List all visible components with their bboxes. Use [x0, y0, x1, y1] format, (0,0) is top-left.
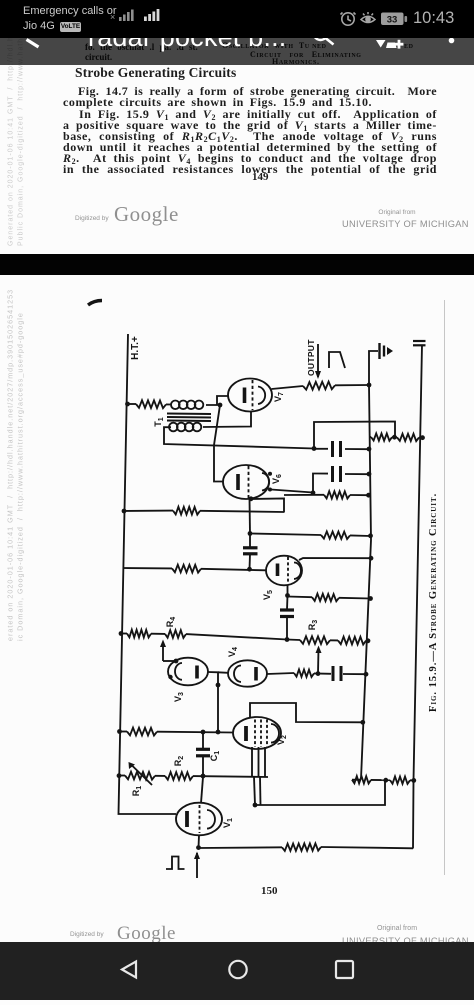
svg-text:×: ×: [110, 12, 115, 22]
svg-text:R2: R2: [173, 756, 185, 767]
svg-text:V5: V5: [262, 590, 274, 600]
svg-text:V6: V6: [271, 474, 283, 484]
svg-text:R1: R1: [131, 786, 143, 797]
svg-text:V7: V7: [273, 392, 285, 402]
svg-text:C1: C1: [209, 751, 221, 762]
svg-text:T1: T1: [153, 417, 165, 427]
svg-text:V1: V1: [222, 818, 234, 828]
svg-text:Fig. 15.9.—A Strobe Generating: Fig. 15.9.—A Strobe Generating Circuit.: [428, 493, 439, 712]
svg-text:H.T.+: H.T.+: [130, 336, 141, 360]
svg-text:OUTPUT: OUTPUT: [306, 339, 316, 376]
svg-text:R4: R4: [165, 617, 177, 628]
svg-text:V3: V3: [173, 692, 185, 702]
svg-text:V4: V4: [227, 647, 239, 657]
svg-text:33: 33: [387, 14, 398, 25]
svg-text:R3: R3: [307, 620, 319, 631]
